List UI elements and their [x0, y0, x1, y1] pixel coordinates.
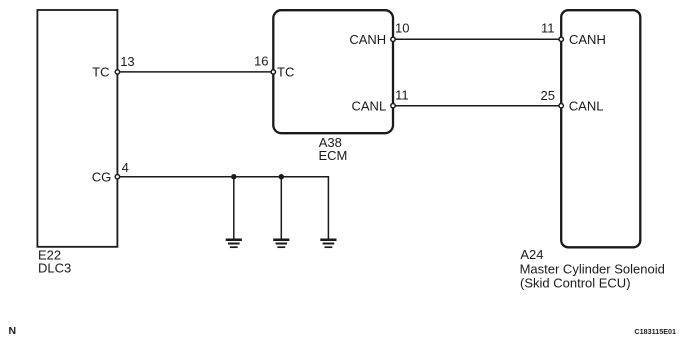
ground 2 [273, 240, 289, 247]
svg-text:C183115E01: C183115E01 [634, 327, 676, 336]
svg-text:TC: TC [92, 64, 109, 79]
svg-text:11: 11 [541, 21, 555, 36]
pin 4 CG on E22 [92, 160, 129, 185]
svg-text:11: 11 [395, 88, 409, 103]
svg-text:CANL: CANL [569, 98, 604, 113]
wire TC (E22 pin 13 to A38 pin 16) [117, 71, 273, 73]
label A24 Master Cylinder Solenoid (Skid Control ECU) [520, 247, 665, 291]
wire ground branch 1 [233, 177, 235, 239]
svg-text:(Skid Control ECU): (Skid Control ECU) [520, 276, 631, 291]
junction node 2 [279, 174, 284, 179]
svg-text:10: 10 [395, 21, 409, 36]
svg-text:Master Cylinder Solenoid: Master Cylinder Solenoid [520, 262, 665, 277]
ground 1 [226, 240, 242, 247]
svg-text:CANH: CANH [349, 32, 386, 47]
svg-text:CANH: CANH [569, 32, 606, 47]
label A38 ECM [319, 135, 348, 163]
connector A24 Skid Control ECU [561, 10, 640, 247]
pin 25 CANL on A24 [541, 88, 604, 113]
svg-text:16: 16 [254, 54, 268, 69]
svg-text:CG: CG [92, 169, 112, 184]
label E22 DLC3 [38, 248, 71, 276]
pin 11 CANH on A24 [541, 21, 606, 47]
svg-text:ECM: ECM [319, 148, 348, 163]
svg-text:CANL: CANL [352, 98, 387, 113]
pin 11 CANL on A38 [352, 88, 409, 114]
wire CANH (A38 pin 10 to A24 pin 11) [393, 38, 561, 40]
junction node 1 [231, 174, 236, 179]
svg-text:25: 25 [541, 88, 555, 103]
svg-text:N: N [9, 325, 17, 337]
pin 10 CANH on A38 [349, 21, 409, 47]
wire CG (E22 pin 4 to grounds) [117, 177, 328, 239]
note N [9, 325, 17, 337]
ECM A38 [273, 10, 393, 133]
svg-text:13: 13 [120, 54, 134, 69]
svg-text:TC: TC [277, 64, 294, 79]
pin 16 TC on A38 [254, 54, 294, 80]
connector E22 DLC3 [37, 10, 117, 247]
svg-text:DLC3: DLC3 [38, 261, 71, 276]
svg-text:4: 4 [122, 160, 129, 175]
svg-text:A24: A24 [520, 247, 543, 262]
doc number C183115E01 [634, 327, 676, 336]
wire ground branch 2 [280, 177, 282, 239]
wire CANL (A38 pin 11 to A24 pin 25) [393, 105, 561, 107]
pin 13 TC on E22 [92, 54, 135, 80]
ground 3 [320, 240, 336, 247]
